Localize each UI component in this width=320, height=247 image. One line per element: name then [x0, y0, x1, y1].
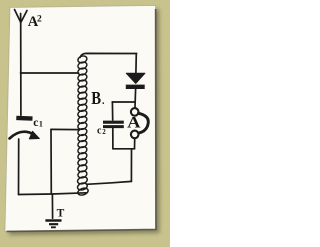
tan background mat: [0, 0, 170, 247]
svg-text:A: A: [127, 114, 141, 131]
wire antenna down to C1: [20, 23, 22, 116]
wire corner down to diode: [135, 54, 137, 74]
inductor B coil loops: [77, 55, 89, 196]
capacitor C2 top plate: [103, 121, 124, 124]
diode D triangle: [126, 73, 145, 83]
svg-text:1: 1: [39, 119, 43, 128]
wire tap to coil: [51, 128, 79, 130]
diode D cathode bar: [126, 85, 145, 89]
wire diode to phone top: [134, 89, 137, 107]
wire bottom horizontal: [19, 193, 87, 195]
antenna symbol: [15, 10, 28, 24]
phone A body arc: [138, 113, 148, 133]
phone A bottom terminal circle: [131, 131, 139, 139]
wire C2 box top: [112, 101, 135, 103]
page drop shadow: [9, 9, 160, 235]
capacitor C1 rotor arc arrow: [10, 132, 34, 139]
wire C1 down to bottom: [18, 139, 20, 195]
ground stem wire: [51, 195, 53, 219]
wire C2 bottom vertical: [112, 128, 114, 149]
capacitor C1 arrowhead: [29, 131, 39, 139]
wire coil bottom tap right: [87, 181, 132, 184]
capacitor C1 top plate: [16, 116, 32, 121]
wire phone bottom down: [134, 139, 136, 149]
capacitor C2 bottom plate: [103, 125, 124, 128]
phone A top terminal circle: [131, 108, 139, 116]
wire coil top to diode corner: [80, 53, 137, 57]
svg-text:2: 2: [102, 128, 106, 136]
wire antenna tap to coil: [21, 72, 79, 74]
svg-text:2: 2: [37, 15, 42, 25]
svg-text:c: c: [33, 117, 38, 129]
wire right branch down: [130, 149, 132, 182]
schematic page card: [5, 6, 156, 232]
wire C2 top vertical: [111, 102, 113, 120]
wire coil tap middle vertical: [50, 129, 52, 194]
page right and bottom dark edge: [7, 9, 156, 231]
wire box bottom: [113, 148, 135, 150]
svg-text:T: T: [57, 208, 65, 220]
ground symbol bars: [45, 219, 61, 222]
svg-text:B: B: [91, 87, 101, 108]
